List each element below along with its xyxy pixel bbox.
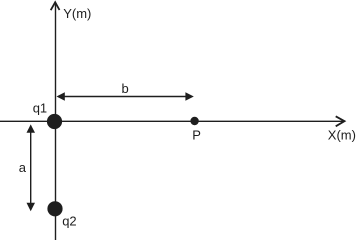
dimension b right arrowhead [185,92,193,101]
X axis arrowhead [336,116,345,126]
svg-text:X(m): X(m) [328,128,356,143]
dimension a top arrowhead [27,124,36,132]
charge q2 [47,201,62,216]
charge q1 [47,114,62,129]
Y axis [55,4,57,240]
svg-text:q1: q1 [33,101,47,116]
dimension b left arrowhead [57,92,65,101]
svg-text:q2: q2 [62,213,76,228]
svg-text:b: b [122,81,129,96]
dimension a arrow line [30,126,32,209]
X axis [0,120,344,122]
dimension b arrow line [58,96,192,98]
svg-text:a: a [19,160,27,175]
svg-text:Y(m): Y(m) [63,6,91,21]
svg-text:P: P [192,128,201,143]
dimension a bottom arrowhead [27,203,36,211]
point P [190,117,198,125]
Y axis arrowhead [51,2,60,10]
